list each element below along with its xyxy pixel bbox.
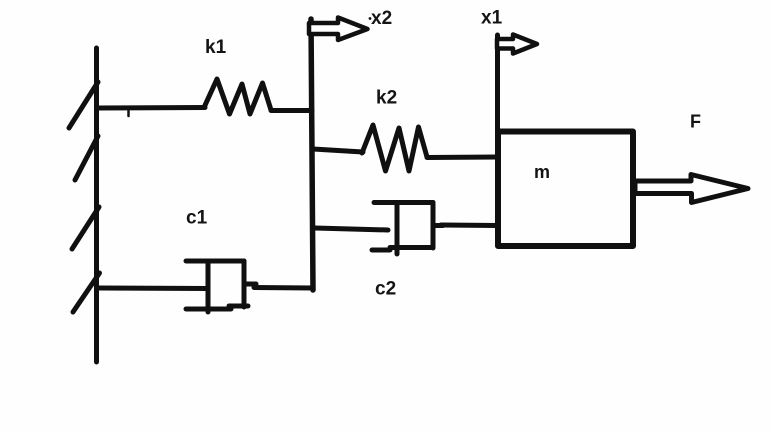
label k2: [376, 88, 397, 109]
svg-text:F: F: [690, 112, 701, 132]
svg-text:m: m: [534, 162, 550, 182]
damper c2 cylinder top: [374, 200, 433, 205]
node: massless bar (junction x2): [311, 19, 313, 290]
svg-text:k2: k2: [376, 88, 397, 109]
wire: x1 line down to mass: [495, 35, 500, 131]
wall hatch 4: [73, 273, 100, 312]
wall (fixed support) vertical line: [94, 48, 99, 362]
damper c2 piston plate: [395, 204, 400, 254]
svg-text:x1: x1: [481, 8, 503, 29]
wire: rod from wall to spring k1: [98, 105, 205, 111]
node: stray dot near x2: [369, 17, 372, 20]
label k1: [205, 37, 227, 58]
damper c2 cylinder bottom left: [372, 248, 390, 253]
node: small tick on k1 rod: [127, 111, 130, 116]
label c2: [375, 279, 396, 300]
wire: rod from spring k1 to bar: [271, 108, 312, 113]
damper c1 cylinder closed end: [242, 261, 247, 307]
wall hatch 2: [75, 136, 98, 180]
label x1: [481, 8, 503, 29]
spring k1: [204, 79, 271, 114]
wall hatch 1: [69, 82, 98, 128]
damper c1 cylinder bottom left: [186, 307, 231, 312]
mass m (block): [498, 132, 633, 247]
damper c1 cylinder bottom right: [229, 304, 248, 309]
svg-text:k1: k1: [205, 37, 227, 58]
wire: rod from bar to spring k2: [313, 149, 363, 152]
label m: [534, 162, 550, 182]
spring k2: [362, 125, 427, 171]
force arrow F: [635, 175, 748, 203]
svg-text:c1: c1: [186, 208, 208, 229]
arrow x2 (displacement): [309, 18, 368, 41]
damper c1 cylinder top: [186, 259, 244, 264]
arrow x1 (displacement): [497, 35, 537, 54]
label F: [690, 112, 701, 132]
damper c2 cylinder bottom right: [390, 245, 433, 250]
damper c1 rod from wall: [99, 286, 208, 292]
wire: stub out of damper c1: [245, 282, 256, 287]
label c1: [186, 208, 208, 229]
svg-text:c2: c2: [375, 279, 396, 300]
wire: rod from spring k2 to mass: [427, 155, 498, 161]
wall hatch 3: [72, 207, 99, 249]
damper c2 cylinder closed end: [431, 203, 436, 249]
label x2: [371, 8, 392, 29]
svg-text:x2: x2: [371, 8, 392, 29]
wire: rod from damper c2 to mass: [441, 223, 498, 229]
wire: stub out of damper c2: [433, 223, 443, 228]
damper c2 rod from bar: [315, 228, 388, 230]
wire: rod from damper c1 to bar bottom: [254, 285, 313, 291]
damper c1 piston plate: [206, 262, 211, 312]
